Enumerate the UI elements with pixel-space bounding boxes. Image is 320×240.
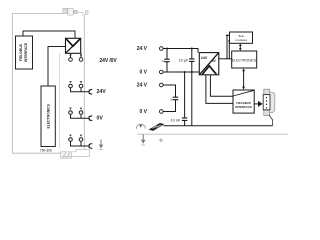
svg-text:INTERFACE: INTERFACE — [24, 42, 28, 62]
arrow fieldbus interface to D-sub — [254, 101, 262, 107]
earth bus wire — [164, 125, 273, 127]
chassis earth symbol — [149, 123, 165, 131]
svg-text:750-306: 750-306 — [40, 148, 52, 152]
shield wire from D-sub to earth bus — [269, 115, 273, 126]
terminal row 1 (supply input 24V/0V) — [69, 53, 83, 61]
svg-text:24V: 24V — [201, 56, 208, 60]
rail earth arc symbol — [136, 124, 145, 129]
double arrow bus modules / electronics — [239, 44, 242, 51]
power supply converter icon (module) — [66, 38, 81, 53]
terminal row 4 (earth jumper contact) — [69, 138, 93, 149]
module housing outline (left coupler, gray) — [12, 14, 84, 154]
svg-text:10 µF: 10 µF — [179, 58, 189, 62]
rail contact dot — [160, 139, 162, 141]
svg-text:24 V: 24 V — [137, 46, 148, 52]
data contact tabs on top of housing — [63, 8, 88, 16]
svg-text:FIELDBUS: FIELDBUS — [19, 43, 23, 61]
schematic terminal 0V (second) — [139, 109, 163, 115]
fieldbus interface box (schematic) — [233, 90, 254, 113]
svg-text:24 V: 24 V — [137, 83, 148, 89]
capacitor C1 (24V-0V small) — [164, 49, 169, 73]
capacitor C4 loop (2nd 24V-0V pair) — [163, 85, 178, 112]
electronics box (schematic) — [232, 51, 257, 68]
bus modules box — [230, 32, 253, 43]
24V rail wire — [163, 49, 198, 53]
D-sub fieldbus connector — [263, 89, 275, 115]
terminal row 2 (24V jumper contact) — [69, 84, 93, 94]
svg-text:24V: 24V — [97, 89, 107, 95]
terminal row 3 (0V jumper contact) — [69, 111, 93, 121]
5V output wire to electronics — [219, 58, 232, 60]
DC/DC converter 24V/5V — [199, 53, 219, 75]
svg-text:ELECTRONICS: ELECTRONICS — [232, 58, 257, 62]
svg-text:INTERFACE: INTERFACE — [235, 105, 251, 109]
svg-text:ELECTRONICS: ELECTRONICS — [47, 103, 51, 128]
junction dots on 24V rail — [166, 48, 168, 50]
schematic terminal 24V (top) — [137, 46, 163, 52]
capacitor C3 10nF (0V-earth) — [182, 72, 187, 126]
capacitor C2 10uF (24V-0V) — [189, 49, 194, 73]
converter secondary wires to fieldbus interface — [206, 75, 233, 104]
wires 5V up to bus modules — [227, 35, 230, 58]
fieldbus interface box (module) — [16, 36, 33, 69]
functional earth arrow (left) — [99, 140, 104, 150]
double arrow electronics / fieldbus interface — [242, 68, 245, 90]
functional earth arrow (right) — [141, 134, 146, 145]
svg-text:10 nF: 10 nF — [170, 119, 180, 123]
DIN rail cross-section — [61, 149, 90, 158]
terminal area separator line — [59, 53, 61, 148]
wire electronics to converter — [48, 47, 66, 87]
0V rail wire — [163, 71, 199, 73]
svg-text:0 V: 0 V — [139, 109, 147, 115]
schematic terminal 24V (second) — [137, 83, 163, 89]
rail line (right schematic) — [137, 133, 288, 135]
schematic terminal 0V — [139, 70, 163, 76]
wire fieldbus box to converter top — [23, 31, 75, 38]
electronics box (module) — [41, 86, 55, 147]
svg-text:0V: 0V — [97, 115, 104, 121]
svg-text:24V /0V: 24V /0V — [100, 58, 118, 64]
svg-text:0 V: 0 V — [139, 70, 147, 76]
svg-text:modules: modules — [235, 38, 247, 42]
0V to earth direct wire — [191, 72, 193, 126]
